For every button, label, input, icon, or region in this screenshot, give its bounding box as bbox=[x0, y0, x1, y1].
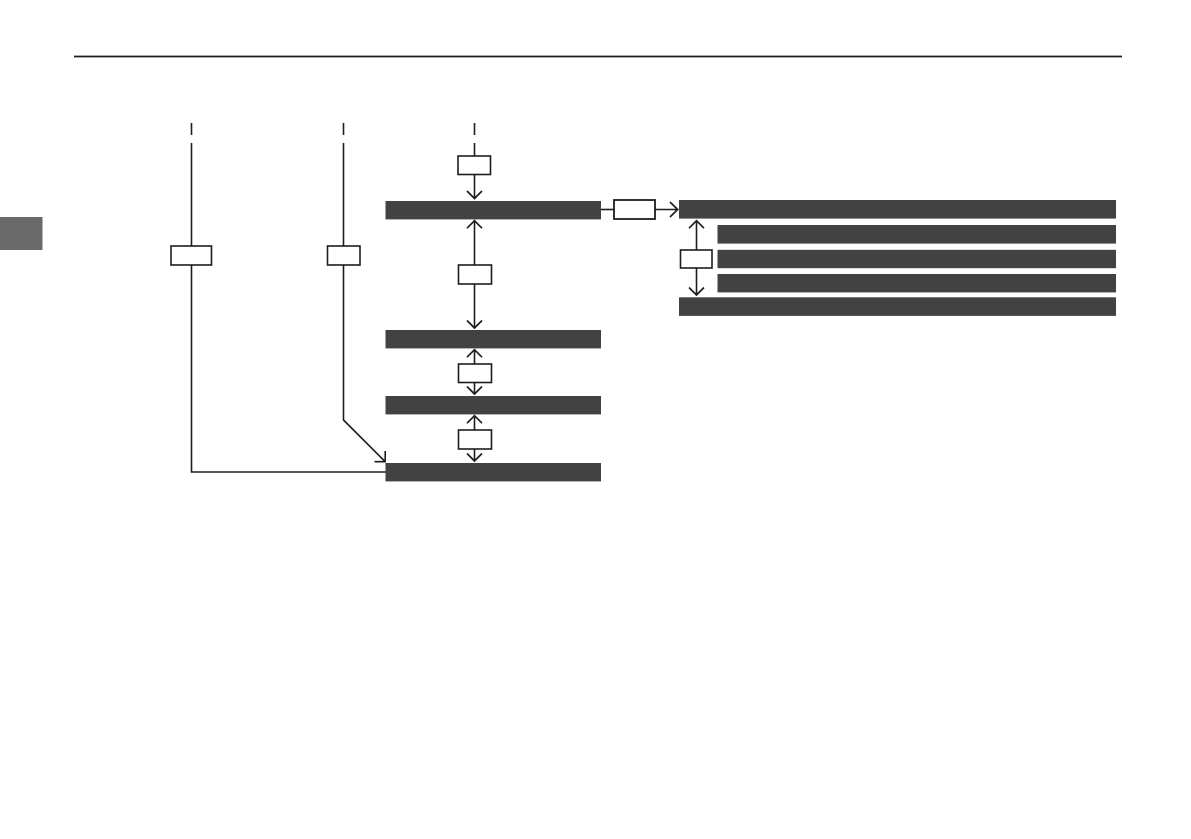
list bar R3 bbox=[718, 250, 1117, 268]
wire: dashed lead of line 1 bbox=[191, 123, 193, 135]
section tab bbox=[0, 217, 43, 250]
wire: up arrow from key box B to bar M2 bbox=[474, 351, 476, 364]
arrowhead down into bar M3 bbox=[467, 387, 482, 395]
menu bar M1 bbox=[386, 201, 602, 219]
list bar R5 bbox=[679, 297, 1116, 316]
arrowhead down into bar M4 bbox=[467, 454, 482, 462]
wire: line 3 segment into top box bbox=[474, 143, 476, 156]
arrowhead up into bar M3 bbox=[467, 416, 482, 424]
key box on line 2 bbox=[328, 246, 361, 265]
wire: down arrow from key box B to bar M3 bbox=[474, 383, 476, 394]
key box on line 3 bbox=[458, 156, 491, 175]
arrowhead down into bar M2 bbox=[467, 321, 482, 329]
right key box bbox=[681, 250, 713, 268]
arrowhead down into bar M1 bbox=[467, 191, 482, 199]
wire: down arrow from right key box to bar R5 bbox=[696, 268, 698, 295]
list bar R4 bbox=[718, 274, 1117, 292]
menu bar M3 bbox=[386, 396, 602, 414]
wire: up arrow from right key box to bar R1 bbox=[696, 222, 698, 250]
arrowhead up into bar M2 bbox=[467, 350, 482, 358]
key box C between M3 and M4 bbox=[459, 430, 492, 449]
menu bar M2 bbox=[386, 330, 602, 348]
key box B between M2 and M3 bbox=[459, 364, 492, 383]
arrowhead up into bar M1 bbox=[467, 221, 482, 229]
menu bar M4 bbox=[386, 463, 602, 481]
wire: up arrow from key box C to bar M3 bbox=[474, 417, 476, 430]
wire: vertical line 1 with bottom horizontal run bbox=[192, 143, 387, 472]
wire: dashed lead of line 3 bbox=[474, 123, 476, 135]
key box A between M1 and M2 bbox=[459, 265, 492, 284]
arrowhead up into bar R1 bbox=[689, 221, 704, 229]
wire: dashed lead of line 2 bbox=[343, 123, 345, 135]
wire: vertical line 2 with diagonal into bar bbox=[344, 143, 386, 462]
list bar R2 bbox=[718, 225, 1117, 244]
arrowhead right into list bar R1 bbox=[670, 202, 678, 217]
arrowhead down into bar R5 bbox=[689, 288, 704, 296]
top rule line bbox=[74, 56, 1122, 58]
wire: up arrow from key box A to bar M1 bbox=[474, 222, 476, 265]
connector key box bbox=[614, 200, 655, 219]
wire: down arrow from key box C to bar M4 bbox=[474, 449, 476, 461]
wire: arrow from box down to menu bar M1 bbox=[474, 175, 476, 199]
arrowhead of diagonal wire bbox=[375, 451, 386, 462]
wire: link from bar M1 to connector box bbox=[601, 209, 614, 211]
list bar R1 bbox=[679, 200, 1116, 219]
wire: arrow from connector box to right list bbox=[655, 209, 677, 211]
wire: down arrow from key box A to bar M2 bbox=[474, 284, 476, 328]
key box on line 1 bbox=[171, 246, 212, 265]
